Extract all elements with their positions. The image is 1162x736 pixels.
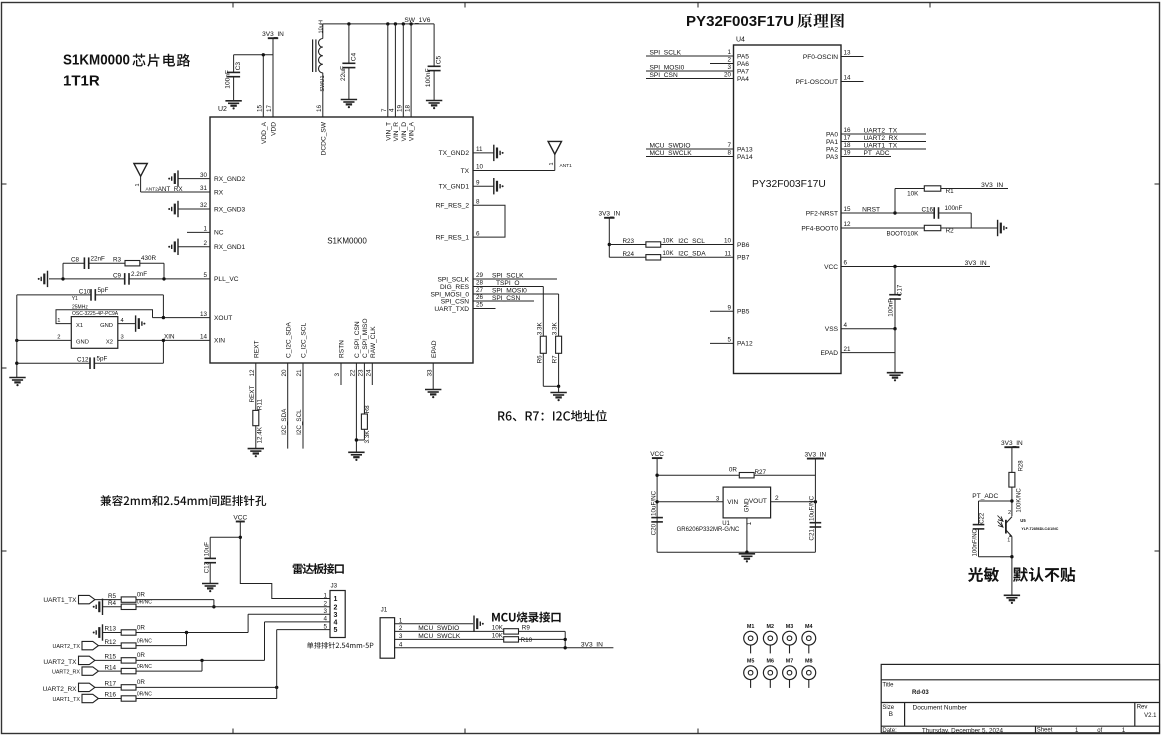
resistor R3 430R (113, 255, 157, 266)
U4 pin 16 PA0 (826, 127, 926, 138)
svg-text:10K: 10K (662, 250, 674, 257)
svg-text:5: 5 (727, 337, 731, 344)
U4 pin 7 PA13 (646, 142, 753, 153)
svg-text:VSS: VSS (825, 326, 839, 333)
U2 pin 21 C_I2C_SCL (296, 322, 307, 448)
svg-text:2: 2 (57, 335, 60, 341)
wire NRST to R1 (895, 189, 924, 214)
svg-text:0R: 0R (137, 652, 146, 659)
resistor R6 3.3K (536, 321, 546, 386)
net label 3V3_IN (VCC) (965, 260, 987, 267)
svg-text:SPI_SCLK: SPI_SCLK (437, 276, 469, 283)
U2 top pin names and numbers (257, 104, 416, 155)
U2 pin 32 RX_GND3 (178, 202, 245, 213)
svg-text:13: 13 (200, 311, 208, 318)
svg-text:PB6: PB6 (737, 242, 750, 249)
svg-text:SPI_SCLK: SPI_SCLK (650, 49, 682, 56)
svg-text:31: 31 (200, 185, 208, 192)
wire U1 bottom rail (657, 551, 815, 554)
svg-text:0R: 0R (137, 591, 146, 598)
svg-text:REXT: REXT (253, 340, 260, 358)
svg-text:8: 8 (476, 198, 480, 205)
mounting hole M2 (763, 624, 777, 654)
svg-text:PY32F003F17U: PY32F003F17U (752, 179, 826, 190)
svg-text:M4: M4 (805, 624, 813, 630)
U2 pin 23 C_SPI_MISO (358, 318, 369, 414)
svg-text:11: 11 (724, 251, 731, 258)
net label SPI_CSN (492, 295, 520, 302)
svg-text:GND: GND (100, 323, 113, 329)
net label PT_ADC (864, 150, 890, 157)
svg-text:12.4K: 12.4K (256, 426, 263, 443)
ground (R13 in) (93, 624, 122, 640)
U2 pin 29 SPI_SCLK (437, 272, 557, 283)
svg-text:PLL_VC: PLL_VC (214, 276, 239, 283)
svg-text:S1KM0000: S1KM0000 (327, 237, 367, 246)
svg-text:3.3K: 3.3K (536, 321, 543, 335)
U2 pin 5 PLL_VC (49, 272, 239, 283)
svg-text:R12: R12 (105, 639, 117, 646)
svg-text:12: 12 (249, 369, 256, 377)
svg-text:21: 21 (296, 369, 303, 377)
U4 pin 18 PA2 (826, 142, 926, 153)
capacitor C9 2.2nF (113, 271, 147, 285)
svg-text:SPI_CSN: SPI_CSN (492, 295, 520, 302)
svg-text:29: 29 (476, 272, 484, 279)
U2 pins 8/6 RF_RES loop (436, 198, 505, 241)
IC U4 PY32F003F17U body (734, 37, 842, 374)
wire C10 to XOUT (162, 295, 165, 319)
svg-text:5: 5 (334, 627, 338, 634)
U2 pin 14 XIN (118, 334, 225, 345)
svg-text:J3: J3 (331, 583, 338, 590)
wire VIN_D (402, 24, 404, 117)
note photosensor (968, 567, 1075, 582)
svg-text:C4: C4 (351, 53, 358, 62)
capacitor C5 100nF (425, 24, 443, 101)
svg-text:R10: R10 (521, 637, 533, 644)
U4 pin 8 PA14 (646, 150, 753, 161)
svg-text:R28: R28 (1019, 460, 1025, 472)
U2 pin 12 REXT (249, 340, 260, 410)
crystal Y1 OSC-3225-4P-PC9A (57, 296, 124, 349)
svg-text:I2C_SCL: I2C_SCL (678, 238, 705, 245)
wire J1 pin2 MCU_SWDIO (395, 630, 504, 632)
wire VIN_A (410, 24, 412, 117)
U4 pin 19 PA3 (826, 150, 891, 161)
wire VIN_R (394, 24, 396, 117)
resistor R7 3.3K (552, 321, 562, 386)
svg-text:Sheet: Sheet (1037, 728, 1053, 734)
svg-text:17: 17 (844, 135, 852, 142)
wire 3V3_IN to R23/R24 (608, 218, 646, 257)
net label REXT (249, 386, 256, 403)
svg-text:SW_1V6: SW_1V6 (404, 17, 430, 24)
U4 pin 14 PF1-OSCOUT (796, 75, 864, 86)
svg-text:7: 7 (381, 108, 388, 112)
svg-text:SPI_CSN: SPI_CSN (441, 298, 469, 305)
svg-text:6: 6 (844, 260, 848, 267)
U2 pin 22 C_SPI_CSN (350, 321, 361, 452)
ground (RX_GND3) (168, 201, 178, 217)
svg-text:SPI_CSN: SPI_CSN (650, 72, 678, 79)
svg-text:R13: R13 (105, 626, 117, 633)
svg-text:B: B (889, 711, 893, 718)
svg-text:3: 3 (121, 335, 124, 341)
svg-text:XIN: XIN (214, 338, 225, 345)
svg-text:OSC-3225-4P-PC9A: OSC-3225-4P-PC9A (72, 311, 119, 317)
svg-text:I2C_SDA: I2C_SDA (281, 408, 288, 435)
svg-text:1: 1 (135, 183, 141, 186)
svg-text:VCC: VCC (824, 264, 838, 271)
svg-text:PF0-OSCIN: PF0-OSCIN (803, 54, 838, 61)
svg-text:PA5: PA5 (737, 53, 749, 60)
resistor R11 12.4K (253, 399, 263, 449)
svg-text:C10: C10 (79, 288, 91, 295)
note R6 R7 I2C address (498, 410, 607, 422)
ground (R6/R7) (550, 393, 566, 402)
svg-text:PA2: PA2 (826, 146, 838, 153)
svg-text:0R/NC: 0R/NC (137, 691, 152, 697)
U2 pin 11 TX_GND2 (439, 146, 494, 157)
svg-text:UART_TXD: UART_TXD (434, 306, 469, 313)
svg-text:U5: U5 (1020, 518, 1026, 523)
svg-text:PB7: PB7 (737, 255, 750, 262)
svg-text:0R: 0R (137, 624, 146, 631)
svg-text:100nF: 100nF (945, 205, 963, 212)
svg-text:M3: M3 (786, 624, 794, 630)
net label MCU_SWCLK (650, 150, 693, 157)
svg-text:0R: 0R (729, 466, 738, 473)
wire left rail (crystal) (15, 295, 18, 378)
U2 pin 20 C_I2C_SDA (281, 321, 292, 448)
svg-text:RF_RES_2: RF_RES_2 (436, 203, 470, 210)
svg-text:PA12: PA12 (737, 341, 753, 348)
U2 pin 2 RX_GND1 (178, 240, 245, 251)
svg-text:MCU_SWDIO: MCU_SWDIO (650, 142, 691, 149)
svg-text:RF_RES_1: RF_RES_1 (436, 234, 470, 241)
svg-text:I2C_SCL: I2C_SCL (296, 409, 303, 435)
U4 pin 20 PA4 (646, 72, 749, 83)
U2 pin 31 RX (141, 185, 224, 196)
ground (TX_GND1) (494, 178, 504, 194)
U4 pin 10 PB6 (661, 238, 750, 249)
power flag VCC (U1) (650, 451, 664, 458)
wire R15/R14 to J3 pin4 (136, 622, 330, 671)
svg-text:R3: R3 (113, 256, 122, 263)
svg-text:R8: R8 (364, 405, 371, 414)
svg-text:24: 24 (366, 369, 373, 377)
svg-text:2: 2 (727, 57, 731, 64)
svg-text:Y1: Y1 (72, 296, 78, 302)
svg-text:22uF: 22uF (340, 66, 347, 81)
net label UART2_RX (864, 135, 899, 142)
title radar board interface (293, 563, 344, 574)
antenna ANT2 (134, 164, 158, 193)
capacitor C21 10uF/NC (809, 495, 822, 540)
svg-text:U2: U2 (218, 106, 227, 113)
svg-text:3V3_IN: 3V3_IN (581, 641, 603, 648)
U4 pin 9 PB5 (710, 304, 750, 315)
svg-text:UART2_TX: UART2_TX (53, 644, 81, 650)
svg-text:R7: R7 (552, 355, 559, 364)
title MCU programming interface (492, 612, 561, 623)
svg-text:5pF: 5pF (98, 287, 109, 294)
svg-text:GR6206P332MR-G/NC: GR6206P332MR-G/NC (677, 527, 740, 533)
U4 pin 17 PA1 (826, 135, 926, 146)
svg-text:33: 33 (426, 369, 433, 377)
U2 pin 27 SPI_MOSI_0 (431, 287, 559, 336)
wire Y1 pin2 (15, 339, 71, 342)
wire Y1 pin1 to XOUT (56, 310, 153, 324)
svg-text:RX_GND1: RX_GND1 (214, 244, 245, 251)
svg-text:EPAD: EPAD (821, 350, 839, 357)
svg-text:R16: R16 (105, 692, 117, 699)
wire R5/R4 to J3 pin2 (136, 600, 330, 609)
capacitor C12 5pF (17, 355, 164, 369)
svg-text:8: 8 (727, 150, 731, 157)
ground (photo) (1004, 595, 1020, 604)
ground (J1 pin1) (474, 616, 484, 632)
capacitor C20 10uF/NC (650, 490, 663, 535)
svg-text:10uF/NC: 10uF/NC (650, 490, 657, 516)
svg-text:PA13: PA13 (737, 146, 753, 153)
capacitor C13 10uF (203, 537, 240, 583)
svg-text:PF2-NRST: PF2-NRST (806, 210, 838, 217)
svg-text:TX: TX (461, 168, 470, 175)
ground (TX_GND2) (494, 145, 504, 161)
ground (R11) (248, 449, 264, 458)
capacitor C4 22uF (340, 24, 358, 100)
svg-text:MCU_SWDIO: MCU_SWDIO (418, 625, 459, 632)
svg-text:15: 15 (257, 104, 264, 112)
svg-text:R4: R4 (108, 600, 117, 607)
svg-text:Title: Title (882, 682, 894, 688)
U4 pin 1 PA5 (646, 49, 749, 60)
U2 pin 30 RX_GND2 (178, 172, 245, 183)
svg-text:100nF: 100nF (225, 70, 232, 89)
svg-text:J1: J1 (381, 607, 388, 614)
svg-text:GND: GND (743, 498, 750, 512)
ground (U1) (739, 554, 755, 563)
svg-text:3: 3 (334, 373, 341, 377)
svg-text:3: 3 (716, 495, 720, 502)
svg-text:U4: U4 (736, 37, 745, 44)
svg-text:12: 12 (844, 221, 852, 228)
wire PLL loop (61, 263, 165, 280)
port UART2_TX (R12) (53, 641, 122, 650)
svg-text:Rd-03: Rd-03 (912, 690, 929, 696)
svg-text:10K: 10K (662, 237, 674, 244)
capacitor C17 100nF (888, 267, 904, 329)
svg-text:16: 16 (316, 104, 323, 112)
svg-text:3V3_IN: 3V3_IN (262, 31, 284, 38)
svg-text:22: 22 (350, 369, 357, 377)
wire SW_1V6 rail (323, 22, 434, 25)
svg-text:3V3_IN: 3V3_IN (981, 182, 1003, 189)
svg-text:5: 5 (203, 272, 207, 279)
capacitor C3 100nF (225, 55, 243, 101)
svg-text:UART2_RX: UART2_RX (52, 669, 80, 675)
ground (C4) (341, 100, 357, 109)
ground (R4 in) (93, 599, 122, 615)
svg-text:VDD: VDD (271, 122, 278, 136)
net label 3V3_IN (J1) (581, 641, 603, 648)
svg-text:RAW_CLK: RAW_CLK (370, 326, 377, 358)
U4 pin 15 PF2-NRST (806, 206, 934, 217)
svg-text:2: 2 (203, 240, 207, 247)
svg-text:100nF: 100nF (888, 299, 895, 317)
svg-text:5: 5 (323, 623, 327, 630)
svg-text:YLP-T2856DLC4/1/NC: YLP-T2856DLC4/1/NC (1021, 527, 1058, 531)
svg-text:PA6: PA6 (737, 61, 749, 68)
net label SPI_CSN (650, 72, 678, 79)
svg-text:R24: R24 (622, 251, 634, 258)
ground (C13) (202, 584, 218, 593)
svg-text:100K/NC: 100K/NC (1016, 488, 1022, 513)
svg-text:ANT1: ANT1 (560, 163, 573, 169)
svg-text:C12: C12 (77, 357, 89, 364)
svg-text:C8: C8 (71, 257, 80, 264)
svg-text:PA14: PA14 (737, 154, 753, 161)
wire 3V3 to R28 (1011, 447, 1013, 472)
resistor R5 0R (108, 591, 145, 602)
wire Y1 pin4 to ground (118, 323, 136, 325)
svg-text:PA3: PA3 (826, 154, 838, 161)
svg-text:VIN_T: VIN_T (385, 122, 392, 141)
wire U1 GND (746, 518, 753, 552)
U4 pin 12 PF4-BOOT0 (801, 221, 924, 232)
svg-text:C_I2C_SDA: C_I2C_SDA (285, 321, 292, 358)
antenna ANT1 (548, 141, 572, 170)
svg-text:UART2_TX: UART2_TX (864, 127, 898, 134)
svg-text:PA0: PA0 (826, 131, 838, 138)
svg-text:R11: R11 (256, 399, 263, 411)
mounting hole M6 (763, 658, 777, 688)
wire VIN (657, 495, 723, 502)
U2 pin 1 NC (187, 226, 224, 237)
svg-text:PT_ADC: PT_ADC (972, 493, 998, 500)
svg-text:R23: R23 (622, 238, 634, 245)
svg-text:Thursday, December 5, 2024: Thursday, December 5, 2024 (922, 727, 1004, 734)
svg-text:C20: C20 (650, 523, 657, 535)
svg-text:Document Number: Document Number (913, 704, 968, 711)
net label UART1_TX (864, 142, 898, 149)
net label SPI_SCLK (650, 49, 682, 56)
svg-text:4: 4 (389, 108, 396, 112)
svg-text:7: 7 (727, 142, 731, 149)
U2 pin 33 EPAD (426, 340, 437, 389)
svg-text:13: 13 (844, 50, 852, 57)
ground (U4 EPAD) (887, 373, 903, 382)
svg-text:25: 25 (476, 302, 484, 309)
svg-text:SPI_MOSI0: SPI_MOSI0 (492, 288, 527, 295)
svg-text:PA4: PA4 (737, 76, 749, 83)
capacitor C22 100nF/NC (973, 501, 986, 557)
ground (C5) (426, 101, 442, 110)
svg-text:PF4-BOOT0: PF4-BOOT0 (801, 225, 838, 232)
resistor R15 0R (105, 652, 146, 663)
connector J3 (323, 583, 345, 638)
net label SPI_MOSI0 (650, 64, 685, 71)
svg-text:R5: R5 (108, 593, 117, 600)
svg-text:UART1_TX: UART1_TX (864, 142, 898, 149)
U2 pin 24 RAW_CLK (366, 326, 377, 385)
title block (881, 664, 1159, 734)
svg-text:10K: 10K (907, 191, 919, 198)
U4 pin 5 PA12 (710, 337, 753, 348)
svg-text:28: 28 (476, 280, 484, 287)
svg-text:1: 1 (549, 162, 555, 165)
svg-text:PB5: PB5 (737, 309, 750, 316)
svg-text:10K: 10K (907, 231, 919, 238)
svg-text:UART1_TX: UART1_TX (43, 597, 77, 604)
svg-text:PA7: PA7 (737, 68, 749, 75)
U2 pin 10 TX (461, 164, 555, 175)
svg-text:RX_GND2: RX_GND2 (214, 176, 245, 183)
svg-text:M2: M2 (767, 624, 775, 630)
ground (BOOT0) (998, 220, 1008, 236)
svg-text:BOOT0: BOOT0 (887, 232, 908, 238)
wire C12 to XIN (162, 339, 165, 364)
svg-text:14: 14 (200, 334, 208, 341)
svg-text:S1KM0000: S1KM0000 (63, 53, 130, 69)
resistor R14 0R/NC (105, 664, 153, 674)
svg-text:C_SPI_CSN: C_SPI_CSN (354, 321, 361, 358)
ground (U2 EPAD) (425, 390, 441, 399)
wire C22 bottom (979, 555, 1014, 558)
ground (RX_GND2) (168, 170, 178, 186)
svg-text:2.2nF: 2.2nF (131, 271, 147, 278)
net label NRST (862, 206, 880, 213)
port UART2_RX (R14) (52, 667, 121, 676)
net label MCU_SWCLK (418, 633, 461, 640)
resistor R16 0R/NC (105, 691, 153, 701)
svg-text:4: 4 (334, 620, 338, 627)
resistor R9 10K (492, 625, 566, 634)
svg-text:UART2_RX: UART2_RX (43, 686, 78, 693)
svg-text:REXT: REXT (249, 386, 256, 403)
svg-text:TX_GND1: TX_GND1 (439, 184, 470, 191)
svg-text:ANT_RX: ANT_RX (158, 186, 184, 193)
svg-text:C13: C13 (203, 561, 210, 573)
svg-text:15: 15 (844, 206, 852, 213)
svg-text:20: 20 (281, 369, 288, 377)
svg-text:TSPI_O: TSPI_O (496, 280, 519, 287)
power flag 3V3_IN (U2 VDD) (262, 31, 284, 38)
svg-text:M6: M6 (767, 658, 775, 664)
port UART2_RX (43, 683, 122, 693)
wire R17/R16 to J3 pin5 (136, 630, 330, 699)
svg-text:R14: R14 (105, 664, 117, 671)
capacitor C10 5pF (17, 287, 164, 301)
wire J1 pin3 MCU_SWCLK (395, 638, 504, 640)
svg-text:VIN: VIN (727, 499, 738, 506)
note pin header compatibility (100, 495, 266, 506)
U4 pin 6 VCC (824, 260, 990, 271)
svg-text:RSTN: RSTN (339, 340, 346, 358)
svg-text:3.3K: 3.3K (552, 321, 559, 335)
svg-text:M8: M8 (805, 658, 813, 664)
svg-text:C16: C16 (921, 206, 933, 213)
svg-text:Rev: Rev (1137, 705, 1148, 711)
net label 3V3_IN (R1) (981, 182, 1003, 189)
svg-text:100nF/NC: 100nF/NC (973, 528, 979, 556)
svg-text:PA1: PA1 (826, 139, 838, 146)
net label PT_ADC (972, 493, 998, 500)
svg-text:XIN: XIN (164, 334, 175, 341)
wire J1 pin4 3V3_IN (395, 631, 614, 649)
